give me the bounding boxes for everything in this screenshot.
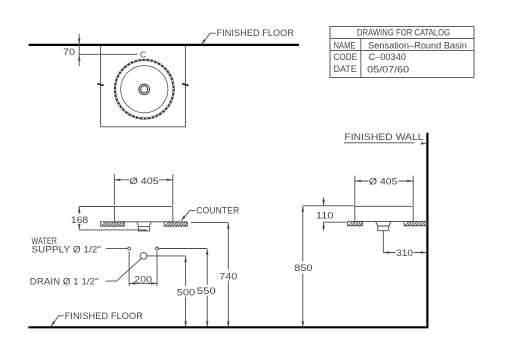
supply point circle 1 <box>128 247 131 250</box>
counter leader <box>181 210 195 220</box>
dimension 110 <box>323 198 325 206</box>
svg-text:FINISHED FLOOR: FINISHED FLOOR <box>217 28 295 38</box>
svg-text:DRAIN Ø 1 1/2": DRAIN Ø 1 1/2" <box>30 276 99 286</box>
counter strip left (side) <box>348 222 363 226</box>
basin body front <box>114 206 172 221</box>
svg-text:550: 550 <box>197 286 216 297</box>
svg-text:200: 200 <box>134 274 152 285</box>
connector supply to 550 <box>159 248 208 250</box>
dimension 550 <box>206 249 208 327</box>
svg-text:740: 740 <box>219 271 237 282</box>
dimension 70 <box>78 34 80 66</box>
dimension line dia405 front <box>114 179 172 181</box>
svg-text:Ø 405: Ø 405 <box>369 176 398 187</box>
counter strip left (front) <box>101 222 125 226</box>
svg-text:CODE: CODE <box>334 52 358 62</box>
svg-text:Sensation–Round Basin: Sensation–Round Basin <box>368 40 467 50</box>
dimension 850 <box>302 206 304 327</box>
counter hatch lines (all strips) <box>101 222 427 227</box>
svg-text:NAME: NAME <box>334 40 356 50</box>
extension lines dia405 side <box>355 176 413 205</box>
tick left edge <box>97 84 104 86</box>
drain inner circle (plan) <box>141 86 148 93</box>
svg-text:DRAWING FOR CATALOG: DRAWING FOR CATALOG <box>357 28 450 38</box>
svg-text:110: 110 <box>316 211 334 222</box>
dimension 200 line <box>129 282 157 284</box>
svg-text:05/07/60: 05/07/60 <box>367 64 409 74</box>
water supply leader line <box>106 248 128 250</box>
svg-text:DATE: DATE <box>334 64 357 74</box>
dimension 200 extension lines <box>129 251 157 286</box>
dimension 310 <box>383 252 427 254</box>
title block name row line <box>330 49 474 51</box>
basin rim dashed circle (plan) <box>114 59 174 119</box>
svg-text:COUNTER: COUNTER <box>196 206 239 216</box>
counter square (plan) <box>101 46 186 127</box>
svg-text:310: 310 <box>396 248 413 259</box>
svg-text:FINISHED FLOOR: FINISHED FLOOR <box>65 311 144 321</box>
finished wall line <box>426 133 428 327</box>
tick right edge <box>182 84 189 86</box>
svg-text:Ø 405: Ø 405 <box>129 176 158 187</box>
svg-text:FINISHED WALL: FINISHED WALL <box>344 132 423 142</box>
drain leader <box>106 259 141 282</box>
dimension 168 <box>79 206 114 208</box>
drain pipe line <box>382 231 384 253</box>
svg-text:850: 850 <box>294 263 312 274</box>
svg-text:500: 500 <box>177 288 195 299</box>
extension lines dia405 front <box>114 174 172 205</box>
title block column divider <box>360 38 362 77</box>
counter strip right (side) <box>404 222 427 226</box>
drain side <box>376 222 391 231</box>
centerline C <box>79 53 137 55</box>
drain front (trapezoid + rect) <box>137 222 151 231</box>
svg-text:C: C <box>140 50 146 60</box>
connector drain to 500 <box>147 255 186 257</box>
drain outer circle (plan) <box>139 84 150 95</box>
connector counter to 740 <box>191 221 228 223</box>
svg-text:168: 168 <box>71 215 88 226</box>
basin inner circle (plan) <box>121 66 168 113</box>
dimension line dia405 side <box>355 180 413 182</box>
dimension 500 <box>185 257 187 328</box>
drain point circle <box>140 253 147 260</box>
svg-text:SUPPLY Ø 1/2": SUPPLY Ø 1/2" <box>32 245 102 255</box>
basin body side <box>355 206 413 221</box>
supply point circle 2 <box>156 247 159 250</box>
finished floor line (top, plan view) <box>29 44 299 46</box>
finished floor line (bottom) <box>28 326 428 328</box>
leader finished floor top <box>202 33 216 44</box>
dimension 740 <box>227 223 229 327</box>
svg-text:70: 70 <box>63 47 75 58</box>
counter strip right (front) <box>164 222 187 226</box>
title block header line <box>330 37 474 39</box>
dimension 110 top reference / 850 connector <box>303 205 355 207</box>
svg-text:C–00340: C–00340 <box>369 52 406 62</box>
title block outer box <box>330 26 474 77</box>
